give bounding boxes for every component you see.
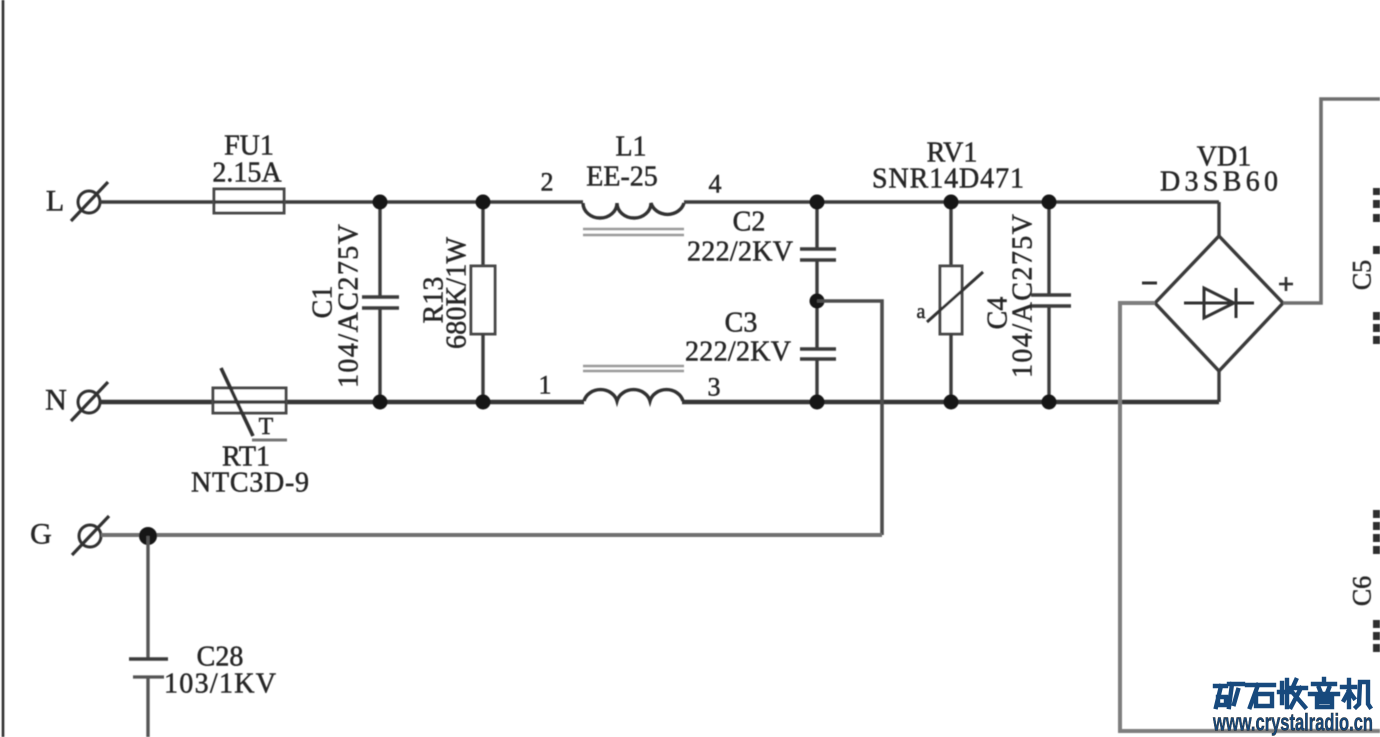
svg-text:C2: C2 xyxy=(733,207,766,238)
page edge border left xyxy=(2,0,5,737)
svg-text:C3: C3 xyxy=(725,308,758,339)
svg-text:103/1KV: 103/1KV xyxy=(164,669,276,700)
svg-text:222/2KV: 222/2KV xyxy=(685,337,791,368)
svg-text:SNR14D471: SNR14D471 xyxy=(872,164,1024,195)
wire N line xyxy=(100,400,584,405)
wire L line left xyxy=(100,200,583,204)
wire G line xyxy=(101,533,882,537)
svg-text:3: 3 xyxy=(708,373,721,402)
svg-text:222/2KV: 222/2KV xyxy=(687,237,793,268)
svg-text:C6: C6 xyxy=(1348,576,1377,606)
svg-text:104/AC275V: 104/AC275V xyxy=(334,224,365,388)
svg-text:1: 1 xyxy=(539,371,552,400)
node dot xyxy=(810,294,825,309)
svg-text:2: 2 xyxy=(541,168,554,197)
svg-text:T: T xyxy=(259,414,274,440)
node dot xyxy=(810,395,825,410)
char ji xyxy=(1342,680,1370,707)
node dot xyxy=(1042,395,1057,410)
terminal G xyxy=(30,516,109,555)
resistor R13 xyxy=(419,202,496,402)
svg-text:C5: C5 xyxy=(1348,260,1377,290)
varistor RV1 xyxy=(872,138,1024,403)
svg-text:2.15A: 2.15A xyxy=(212,158,282,189)
capacitor C5 (clipped at edge) xyxy=(1348,188,1380,344)
svg-text:L1: L1 xyxy=(615,132,646,163)
wire from C2/C3 node to ground rail xyxy=(817,301,882,535)
inductor L1 common-mode choke xyxy=(539,132,722,402)
svg-text:G: G xyxy=(30,518,52,551)
capacitor C1 xyxy=(308,202,400,402)
char shi xyxy=(1247,685,1274,707)
wire bridge - output xyxy=(1120,303,1380,731)
node dot xyxy=(476,195,491,210)
watermark crystalradio logo xyxy=(1215,679,1370,707)
capacitor C4 xyxy=(983,202,1072,402)
node dot xyxy=(139,527,157,545)
terminal L xyxy=(46,182,108,221)
svg-text:a: a xyxy=(917,301,926,323)
terminal N xyxy=(45,382,108,421)
svg-text:NTC3D-9: NTC3D-9 xyxy=(191,468,309,499)
node dot xyxy=(373,395,388,410)
svg-text:4: 4 xyxy=(709,170,722,199)
svg-text:L: L xyxy=(46,185,64,218)
svg-text:680K/1W: 680K/1W xyxy=(442,236,473,349)
capacitor C3 xyxy=(685,301,836,402)
thermistor RT1 xyxy=(191,368,309,499)
bridge rectifier VD1 xyxy=(1142,142,1293,403)
char shou xyxy=(1279,680,1306,707)
char kuang xyxy=(1215,684,1243,707)
char yin xyxy=(1310,679,1338,707)
wire bridge + output xyxy=(1283,99,1380,303)
node dot xyxy=(1042,195,1057,210)
capacitor C6 (clipped at edge) xyxy=(1348,510,1380,652)
node dot xyxy=(476,395,491,410)
fuse FU1 xyxy=(212,131,284,214)
capacitor C2 xyxy=(687,202,836,301)
wire top mid xyxy=(684,200,1219,204)
node dot xyxy=(944,195,959,210)
node dot xyxy=(810,195,825,210)
node dot xyxy=(373,195,388,210)
svg-text:104/AC275V: 104/AC275V xyxy=(1008,214,1039,378)
svg-text:www.crystalradio.cn: www.crystalradio.cn xyxy=(1212,710,1373,737)
capacitor C28 xyxy=(129,536,276,737)
node dot xyxy=(944,395,959,410)
svg-text:EE-25: EE-25 xyxy=(586,162,658,193)
svg-text:N: N xyxy=(45,384,67,417)
